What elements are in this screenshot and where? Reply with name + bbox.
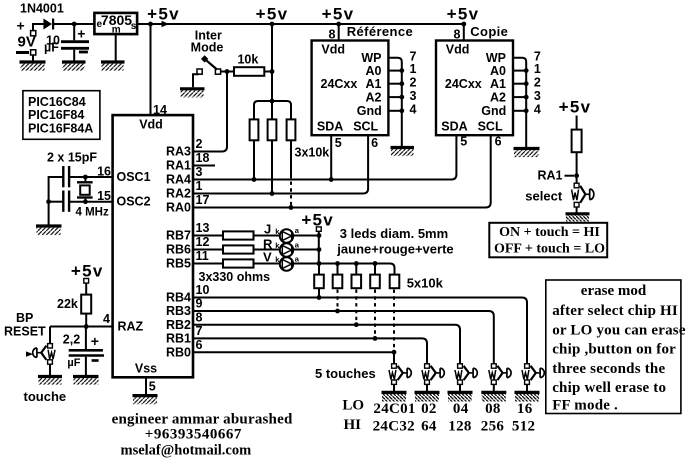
node rail junction reference pin8 [336, 22, 341, 27]
node RAZ junction [84, 324, 89, 329]
svg-text:BP: BP [16, 311, 33, 325]
svg-text:1N4001: 1N4001 [20, 1, 64, 15]
svg-text:Gnd: Gnd [357, 104, 382, 118]
svg-text:OFF + touch = LO: OFF + touch = LO [494, 241, 605, 256]
svg-text:LO: LO [342, 398, 364, 414]
svg-text:WP: WP [486, 51, 506, 65]
svg-text:RESET: RESET [4, 325, 46, 339]
ground inter mode [180, 87, 205, 90]
ground touch 3 [448, 391, 473, 394]
svg-text:OSC2: OSC2 [117, 195, 151, 209]
svg-text:2,2: 2,2 [63, 333, 80, 347]
svg-text:512: 512 [512, 419, 535, 435]
pushbutton touch 3 [455, 364, 477, 391]
ground touch 1 [382, 391, 407, 394]
svg-text:12: 12 [196, 235, 210, 249]
wire switch to RA3 node [221, 71, 234, 73]
svg-text:jaune+rouge+verte: jaune+rouge+verte [336, 242, 453, 257]
box PIC variants list [23, 91, 100, 140]
svg-text:chip well erase to: chip well erase to [552, 380, 666, 396]
node rail junction copie pin8 [461, 22, 466, 27]
pushbutton select [572, 183, 594, 212]
pushbutton BP reset [33, 344, 55, 375]
svg-text:or LO you can erase: or LO you can erase [552, 322, 686, 338]
ground under 7805 [101, 60, 125, 63]
svg-text:A0: A0 [490, 64, 506, 78]
svg-text:5x10k: 5x10k [407, 275, 444, 290]
svg-text:1: 1 [196, 179, 203, 193]
pin A0 stub copie [513, 70, 526, 72]
pin A2 stub reference [388, 96, 401, 98]
pin RB5 wire [193, 263, 223, 265]
svg-text:PIC16F84A: PIC16F84A [28, 122, 93, 136]
wire +5v to select resistor [576, 116, 578, 130]
pushbutton touch 1 [389, 364, 411, 391]
svg-text:3: 3 [410, 89, 417, 103]
wire copie pin8 [463, 24, 465, 41]
svg-text:1: 1 [410, 62, 417, 76]
pin RA1 stub [193, 165, 215, 167]
wire stems bus to 5x10k tops [319, 264, 375, 275]
wire R4b dashed to RB3 [337, 290, 339, 310]
pin RA0 wire to copie SCL [193, 135, 491, 207]
svg-text:RA0: RA0 [166, 201, 191, 215]
svg-text:A2: A2 [366, 91, 382, 105]
wire terminal to 22k [85, 283, 87, 295]
pin WP stub to bus copie [513, 58, 526, 147]
capacitor C3 15pF bottom [62, 191, 64, 212]
svg-text:24C01: 24C01 [373, 401, 415, 417]
svg-text:after select chip HI: after select chip HI [552, 303, 678, 319]
svg-text:SCL: SCL [353, 120, 378, 134]
pin A1 stub reference [388, 83, 401, 85]
node +5v reset terminal [84, 279, 89, 284]
svg-text:A1: A1 [366, 77, 382, 91]
resistor R3c 330 [223, 259, 254, 267]
svg-text:+5v: +5v [322, 4, 355, 23]
pin RB0 wire to button1 [193, 352, 394, 364]
svg-text:3: 3 [534, 89, 541, 103]
svg-text:5: 5 [149, 379, 156, 393]
svg-text:m: m [112, 25, 121, 36]
svg-text:Copie: Copie [470, 24, 508, 39]
svg-text:9V: 9V [18, 33, 36, 50]
svg-text:+5v: +5v [559, 97, 592, 116]
svg-text:3: 3 [196, 165, 203, 179]
svg-text:a: a [295, 254, 300, 263]
svg-text:+: + [77, 26, 85, 42]
svg-text:a: a [295, 226, 300, 235]
wire 7805 output to +5V rail [137, 23, 464, 25]
svg-text:+: + [91, 333, 99, 349]
ground crystal [36, 224, 62, 227]
IC U1 PIC16F84 box [113, 115, 193, 377]
svg-text:RB6: RB6 [166, 243, 191, 257]
svg-text:08: 08 [485, 401, 501, 417]
pushbutton touch 4 [489, 364, 511, 391]
svg-text:+5v: +5v [447, 4, 480, 23]
ground select [566, 212, 590, 215]
svg-text:s: s [131, 21, 137, 32]
pin A1 stub copie [513, 83, 526, 85]
resistor R4c 10k [352, 275, 362, 289]
wire LED V to 5x10k bus [293, 264, 394, 275]
svg-text:2: 2 [534, 75, 541, 89]
wire cap bottom left [49, 201, 64, 203]
node switch/10k/RA3 junction [225, 69, 230, 74]
svg-text:chip ,button on for: chip ,button on for [552, 342, 676, 358]
node rail junction at PIC Vdd drop [148, 22, 153, 27]
svg-text:2: 2 [196, 137, 203, 151]
wire R4d dashed to RB1 [374, 290, 376, 338]
box ON OFF legend [489, 223, 607, 257]
svg-text:touche: touche [24, 389, 67, 404]
ground touch 2 [415, 391, 440, 394]
svg-text:µF: µF [67, 357, 80, 369]
pin RB2 wire to button3 [193, 325, 460, 364]
svg-text:8: 8 [196, 310, 203, 324]
node rail junction resistor bank [270, 22, 275, 27]
wire 10k right to +5v line [264, 71, 272, 73]
resistor R4e 10k [390, 275, 400, 289]
svg-text:13: 13 [196, 221, 210, 235]
svg-text:+96393540667: +96393540667 [145, 426, 242, 442]
svg-text:Vss: Vss [135, 362, 157, 376]
pin A0 stub reference [388, 70, 401, 72]
node bank top [270, 99, 275, 104]
pin RB1 wire to button2 [193, 338, 427, 363]
resistor R4a 10k [314, 275, 324, 289]
svg-text:1: 1 [534, 62, 541, 76]
IC U4 24Cxx copie box [436, 41, 513, 136]
svg-text:A0: A0 [366, 64, 382, 78]
svg-text:17: 17 [196, 193, 210, 207]
wire RAZ to reset button [49, 327, 51, 344]
svg-text:64: 64 [421, 419, 437, 435]
svg-text:16: 16 [517, 401, 533, 417]
svg-text:engineer ammar aburashed: engineer ammar aburashed [112, 411, 293, 427]
svg-text:erase mod: erase mod [581, 283, 647, 299]
svg-text:+5v: +5v [71, 261, 104, 280]
box erase mod note [546, 280, 681, 414]
svg-text:PIC16C84: PIC16C84 [28, 95, 86, 109]
wire +5v drop to 10k and 3x10k bank [271, 24, 273, 101]
svg-text:RB4: RB4 [166, 291, 191, 305]
svg-text:V: V [263, 250, 272, 265]
svg-text:9: 9 [196, 297, 203, 311]
pin RA2 wire to ref SCL [193, 135, 368, 193]
wire OSC2 line [69, 201, 113, 203]
pin Gnd stub reference [388, 110, 401, 112]
svg-text:RA2: RA2 [166, 187, 191, 201]
wire R2b to RA2 [271, 140, 273, 193]
ground touche [38, 375, 62, 378]
svg-text:RA1: RA1 [166, 159, 191, 173]
wire Vss to ground pin5 [145, 377, 147, 394]
svg-text:4 MHz: 4 MHz [76, 207, 109, 219]
svg-text:6: 6 [196, 338, 203, 352]
IC U3 24Cxx reference box [312, 41, 389, 136]
svg-text:4: 4 [410, 102, 417, 116]
wire R3b to LED R [254, 249, 281, 251]
wire R2a to RA4 [253, 140, 255, 179]
node junction diode/cap [72, 22, 77, 27]
node left cap bottom junction [46, 199, 51, 204]
resistor R2b 10k [268, 119, 277, 140]
svg-text:SDA: SDA [317, 120, 343, 134]
wire input plus to diode [33, 24, 43, 31]
wire left caps to ground [49, 177, 64, 225]
svg-text:Vdd: Vdd [321, 42, 345, 56]
svg-text:6: 6 [495, 135, 502, 149]
resistor R4b 10k [333, 275, 343, 289]
ground under C1 [62, 60, 86, 63]
node - input terminal [16, 51, 29, 54]
svg-text:4: 4 [534, 102, 541, 116]
svg-text:02: 02 [421, 401, 437, 417]
wire reference SDA down to RA4 [330, 135, 332, 179]
svg-text:WP: WP [361, 51, 381, 65]
pin WP stub to bus reference [388, 58, 401, 146]
svg-text:4: 4 [103, 312, 110, 326]
wire R4e dashed to RB0 [393, 290, 395, 351]
regulator U2 7805 [94, 13, 137, 34]
pin RA3 wire [193, 151, 222, 153]
diode D1 1N4001 [43, 19, 52, 30]
pin RB7 wire [193, 235, 223, 237]
svg-text:14: 14 [153, 103, 167, 117]
node RA1 select junction [574, 173, 579, 178]
svg-text:+: + [17, 18, 25, 34]
ground under C4 [73, 375, 99, 378]
svg-text:24C32: 24C32 [373, 419, 415, 435]
svg-text:A2: A2 [490, 91, 506, 105]
svg-text:5: 5 [335, 136, 342, 150]
svg-text:Vdd: Vdd [446, 42, 470, 56]
svg-text:7: 7 [196, 324, 203, 338]
wire RA1 tick [565, 175, 575, 177]
resistor bank 3x10k branch [254, 101, 291, 119]
svg-text:Mode: Mode [191, 41, 224, 55]
svg-text:J: J [264, 222, 271, 237]
svg-text:5: 5 [460, 135, 467, 149]
svg-text:FF mode .: FF mode . [552, 398, 618, 414]
wire Vdd drop to PIC pin14 [150, 24, 152, 115]
wire R4c dashed to RB2 [355, 290, 357, 324]
wire RA3 riser [193, 72, 227, 152]
svg-text:RB1: RB1 [166, 332, 191, 346]
svg-text:Vdd: Vdd [139, 118, 163, 132]
svg-text:10k: 10k [237, 53, 258, 67]
svg-text:Gnd: Gnd [481, 104, 506, 118]
svg-text:6: 6 [371, 136, 378, 150]
svg-text:15: 15 [97, 189, 111, 203]
svg-text:256: 256 [481, 419, 505, 435]
pin RA4 wire to SDA bus [193, 135, 456, 179]
wire minus to ground [32, 55, 34, 61]
node bus R4c top [354, 261, 359, 266]
pin RB3 wire to button4 [193, 311, 494, 364]
svg-text:128: 128 [448, 419, 471, 435]
svg-text:ON + touch = HI: ON + touch = HI [499, 225, 600, 240]
svg-text:5 touches: 5 touches [315, 366, 376, 381]
svg-text:A1: A1 [490, 77, 506, 91]
svg-text:10: 10 [196, 283, 210, 297]
svg-text:OSC1: OSC1 [117, 170, 151, 184]
svg-text:+5v: +5v [256, 4, 289, 23]
svg-text:RAZ: RAZ [118, 320, 144, 334]
wire OSC1 line [69, 176, 113, 178]
arrow on rail [162, 21, 170, 27]
svg-text:24Cxx: 24Cxx [321, 77, 358, 91]
ground reference [391, 146, 415, 149]
crystal X1 4MHz [84, 177, 86, 181]
wire switch left contact to ground [193, 74, 199, 87]
svg-text:2: 2 [410, 75, 417, 89]
svg-text:RB5: RB5 [166, 257, 191, 271]
svg-text:RB0: RB0 [166, 345, 191, 359]
svg-text:RB3: RB3 [166, 304, 191, 318]
resistor R2a 10k [250, 119, 259, 140]
svg-text:SDA: SDA [441, 120, 467, 134]
svg-text:22k: 22k [57, 297, 78, 311]
node bus R4b top [335, 261, 340, 266]
pushbutton touch 2 [422, 364, 444, 391]
ground touch 5 [515, 391, 540, 394]
node bus R4d top [373, 261, 378, 266]
capacitor C2 15pF top [62, 166, 64, 187]
node OSC2 crystal junction [83, 199, 88, 204]
wire R3c to LED V [254, 263, 281, 265]
pin RB4 wire to button5 [193, 298, 527, 364]
svg-text:RB7: RB7 [166, 229, 191, 243]
ground input [20, 60, 46, 63]
svg-text:RB2: RB2 [166, 318, 191, 332]
svg-text:e: e [97, 19, 103, 30]
pin RAZ wire [50, 326, 113, 328]
svg-text:3 leds diam. 5mm: 3 leds diam. 5mm [340, 226, 448, 241]
node OSC1 crystal junction [83, 175, 88, 180]
svg-text:16: 16 [97, 165, 111, 179]
resistor R2c 10k [287, 119, 296, 140]
svg-text:select: select [525, 188, 563, 203]
svg-text:SCL: SCL [478, 120, 503, 134]
svg-text:PIC16F84: PIC16F84 [28, 108, 84, 122]
ground copie [514, 147, 540, 150]
wire 7805 gnd [115, 34, 117, 60]
wire R4a to RB4 [318, 288, 320, 297]
resistor R3b 330 [223, 245, 254, 253]
pin Gnd stub copie [513, 110, 526, 112]
wire diode to 7805 input [52, 23, 94, 25]
resistor R4d 10k [370, 275, 380, 289]
wire +5v feed down [318, 231, 320, 263]
svg-text:HI: HI [344, 417, 362, 433]
svg-text:04: 04 [453, 401, 469, 417]
resistor R5 10k select [572, 130, 582, 153]
resistor R3a 330 [223, 231, 254, 239]
wire R2c to RA0 dashed crossing [290, 140, 292, 178]
svg-text:2 x 15pF: 2 x 15pF [47, 151, 97, 165]
pin RB6 wire [193, 249, 223, 251]
wire R3a to LED J [254, 235, 281, 237]
arrow push direction [26, 351, 33, 356]
svg-text:RA4: RA4 [166, 173, 191, 187]
wire resistor to button select [576, 152, 578, 183]
svg-text:Référence: Référence [347, 24, 413, 39]
wire 22k to RAZ [85, 314, 87, 327]
pushbutton touch 5 [522, 364, 544, 391]
wire LED R to +5v line [293, 249, 319, 251]
svg-text:3x10k: 3x10k [295, 145, 330, 159]
svg-text:a: a [295, 240, 300, 249]
wire reference pin8 [338, 24, 340, 41]
svg-text:RA1: RA1 [537, 169, 562, 183]
node +5v terminal square [316, 227, 321, 231]
pin A2 stub copie [513, 96, 526, 98]
wire LED J to +5v line [293, 235, 319, 237]
node 10k to +5v [270, 69, 275, 74]
svg-text:µF: µF [44, 41, 59, 55]
svg-text:three seconds the: three seconds the [552, 361, 665, 377]
svg-text:mselaf@hotmail.com: mselaf@hotmail.com [121, 443, 252, 459]
svg-text:11: 11 [196, 249, 209, 263]
svg-text:18: 18 [196, 151, 210, 165]
svg-text:24Cxx: 24Cxx [445, 77, 482, 91]
ground Vss [133, 394, 158, 397]
svg-text:RA3: RA3 [166, 145, 191, 159]
ground touch 4 [481, 391, 506, 394]
svg-text:+5v: +5v [147, 4, 180, 23]
